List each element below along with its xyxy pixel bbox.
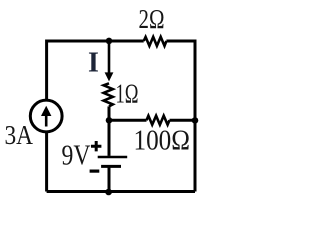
wire: top-left segment (top wire left of 2ohm + left wire above source) xyxy=(47,41,144,100)
wire: middle junction down to battery xyxy=(108,120,111,156)
battery V1 9V bottom plate (short) xyxy=(101,165,121,168)
wire: battery to bottom junction xyxy=(108,167,111,192)
wire: bottom wire xyxy=(47,190,195,193)
node C right junction dot xyxy=(192,117,199,124)
resistor R1 2Ω zigzag xyxy=(144,37,167,46)
current source arrow (up) xyxy=(45,114,48,127)
resistor R2 1Ω zigzag (vertical) xyxy=(104,83,113,106)
resistor R3 100Ω zigzag xyxy=(147,116,170,125)
current arrow I (down) xyxy=(108,41,111,73)
svg-text:1Ω: 1Ω xyxy=(116,79,139,109)
svg-text:3A: 3A xyxy=(5,120,34,150)
svg-text:I: I xyxy=(88,48,99,79)
node A top junction dot xyxy=(106,38,113,45)
node D bottom junction dot xyxy=(105,189,112,196)
wire: left wire below source xyxy=(45,132,48,191)
svg-text:100Ω: 100Ω xyxy=(134,126,191,157)
battery V1 9V top plate (long) xyxy=(98,156,128,158)
svg-text:2Ω: 2Ω xyxy=(139,4,165,34)
node B middle junction dot xyxy=(106,117,113,124)
wire: 1ohm to middle junction xyxy=(108,106,111,120)
svg-text:9V: 9V xyxy=(62,141,91,172)
battery minus sign xyxy=(90,170,100,173)
wire: top wire right of 2ohm + right wire xyxy=(166,41,195,192)
wire: middle junction to 100ohm xyxy=(109,119,147,122)
current source U1 3A circle xyxy=(30,100,62,132)
battery plus sign xyxy=(91,141,101,151)
wire: 100ohm to right wire xyxy=(170,119,196,122)
